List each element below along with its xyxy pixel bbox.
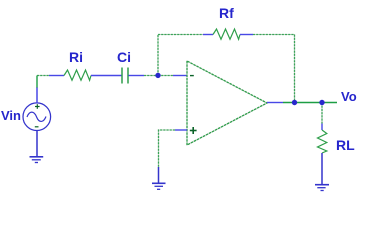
wire underlays (faint) bbox=[37, 35, 322, 168]
wire: Rf right lead (blue) bbox=[240, 34, 253, 36]
ground (Vin) bbox=[30, 157, 44, 163]
resistor RL bbox=[318, 130, 327, 153]
wire: Vin top lead (blue) bbox=[36, 88, 38, 104]
wire: Ci right lead (blue) bbox=[129, 75, 145, 77]
wire: Vin vertical riser bbox=[36, 76, 38, 89]
label Vo bbox=[341, 89, 357, 104]
wire: feedback top left segment bbox=[158, 34, 203, 36]
ground (RL) bbox=[315, 185, 329, 191]
wire: RL bottom lead / ground stem (blue) bbox=[321, 153, 323, 185]
node: feedback/output junction dot bbox=[292, 100, 297, 105]
capacitor Ci bbox=[122, 68, 128, 84]
wire: Ci lead to junction node bbox=[144, 75, 158, 77]
wire: Rf left lead (blue) bbox=[203, 34, 213, 36]
wire: RL top lead (blue) bbox=[321, 124, 323, 131]
wire: Vin bottom lead / ground stem (blue) bbox=[36, 131, 38, 157]
wire: op-amp minus input lead (blue) bbox=[173, 75, 187, 77]
wire: output to Vo stub bbox=[283, 102, 337, 104]
wire: plus input to ground corner bbox=[159, 130, 176, 167]
source minus mark bbox=[35, 126, 39, 128]
wire: ground stem (blue) bbox=[158, 167, 160, 183]
op-amp plus sign bbox=[190, 127, 197, 134]
wire: output dot down to RL bbox=[321, 103, 323, 124]
source plus mark bbox=[35, 104, 40, 109]
wire: op-amp output lead (blue) bbox=[267, 102, 283, 104]
wire: feedback riser from node A up bbox=[157, 35, 159, 76]
wire: Vin top corner horizontal to Ri bbox=[37, 75, 49, 77]
node A junction dot bbox=[155, 73, 160, 78]
label Ci bbox=[117, 49, 131, 65]
label Vin bbox=[1, 108, 21, 123]
node: RL/output junction dot bbox=[319, 100, 324, 105]
op-amp minus sign bbox=[190, 75, 194, 77]
wire: op-amp plus input lead (blue) bbox=[175, 129, 187, 131]
wire: junction to op-amp minus input bbox=[158, 75, 173, 77]
label RL bbox=[336, 137, 355, 153]
wire: Ri right lead to Ci left plate (blue) bbox=[91, 75, 122, 77]
wire: feedback top right segment and drop to output bbox=[253, 35, 295, 103]
label Ri bbox=[69, 49, 83, 65]
source sine wave bbox=[27, 112, 46, 121]
op-amp U1 bbox=[187, 61, 267, 145]
resistor Ri bbox=[64, 70, 91, 80]
ground (op-amp plus input) bbox=[152, 183, 166, 189]
label Rf bbox=[219, 5, 234, 21]
resistor Rf bbox=[213, 29, 240, 39]
wire: Ri left lead (blue) bbox=[49, 75, 64, 77]
voltage source Vin bbox=[23, 103, 51, 131]
